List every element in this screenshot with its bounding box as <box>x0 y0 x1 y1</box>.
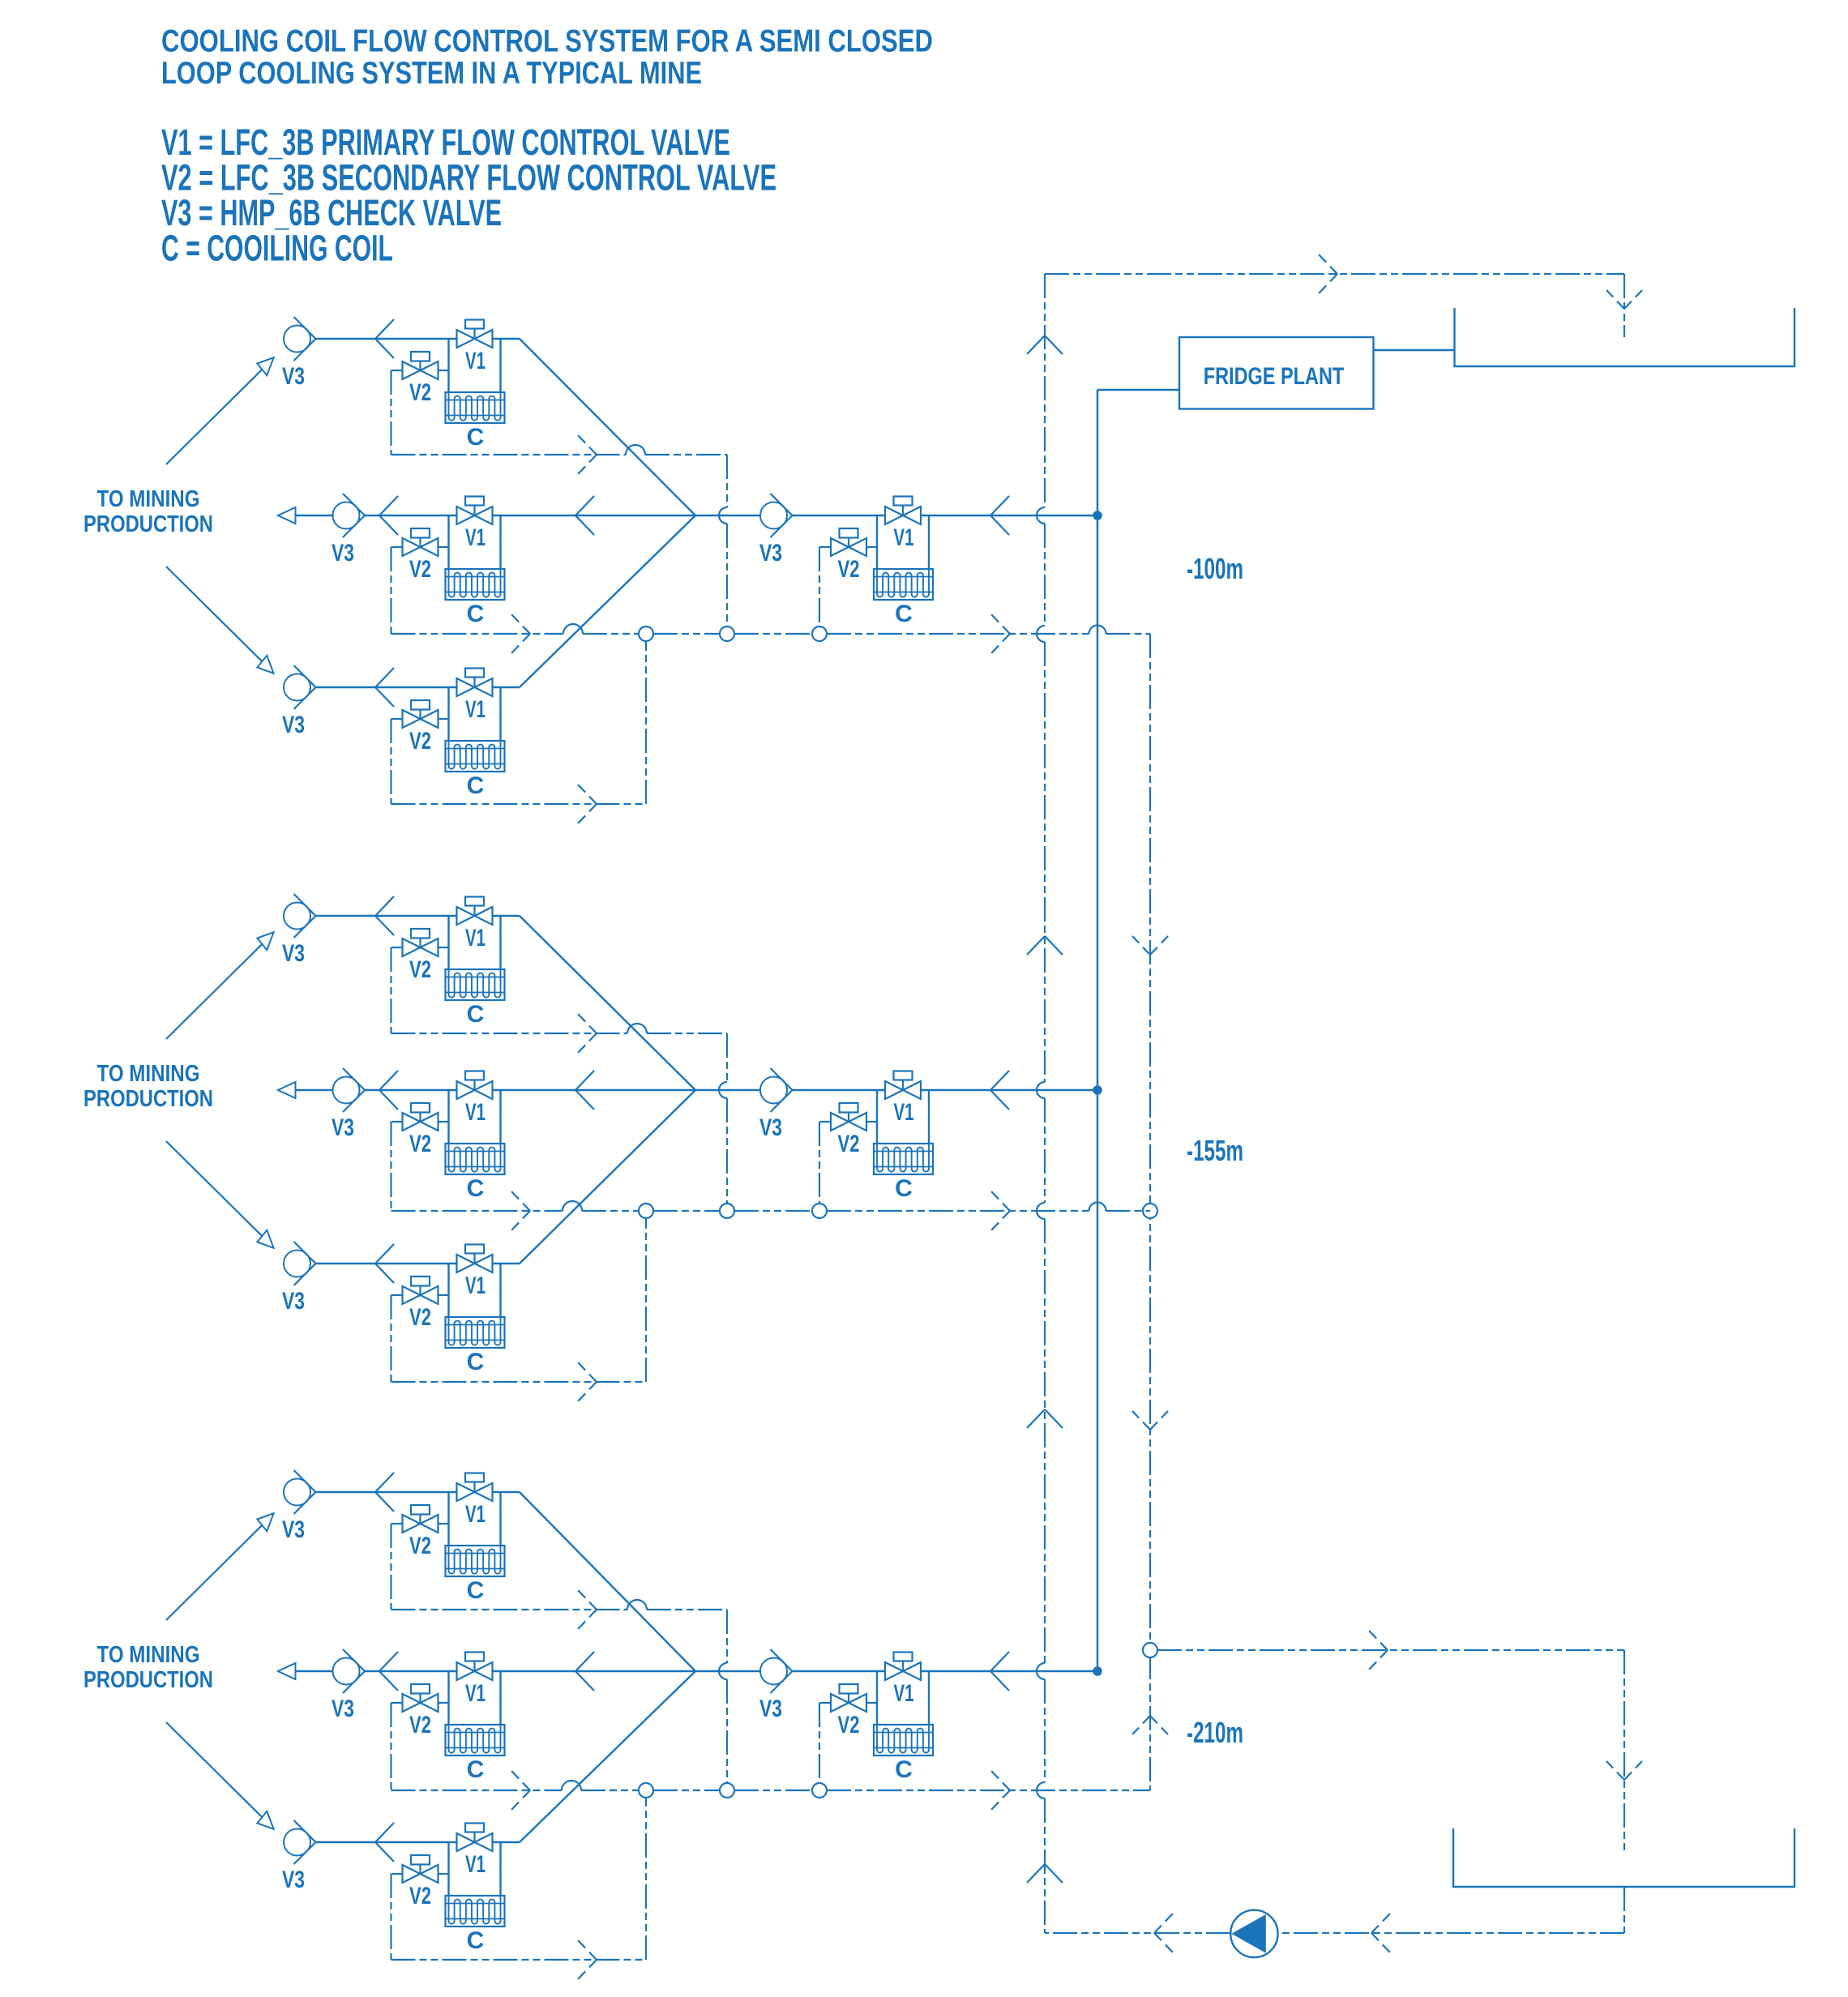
wire V2 bypass dropper (level -210m branch A) <box>390 1524 391 1610</box>
svg-text:-210m: -210m <box>1187 1716 1243 1749</box>
svg-text:V3: V3 <box>282 363 305 390</box>
wire pipe V3 to V1 (level -210m branch C) <box>316 1841 457 1843</box>
svg-text:V3: V3 <box>282 940 305 967</box>
wire V2 bypass dropper (level -155m branch A) <box>390 947 391 1033</box>
label V1 (level -155m branch B) <box>465 1099 486 1126</box>
check valve V3 (level -210m branch B) <box>333 1649 366 1693</box>
svg-text:V1: V1 <box>894 1099 914 1126</box>
flow arrow level return left (level -100m) <box>511 614 530 653</box>
valve V1 (level -155m branch A) <box>457 897 493 926</box>
label V2 (level -155m branch A) <box>409 956 431 983</box>
wire pipe V3 to V1 (second stage, level -100m) <box>793 515 886 516</box>
svg-text:C: C <box>895 601 913 627</box>
wire V2 bypass dropper (level -100m branch C) <box>390 719 391 804</box>
arrow to mining (lower, level -155m) <box>166 1141 274 1248</box>
wire return to settling tank T2 <box>1157 1649 1624 1651</box>
wire tank T1 to fridge plant <box>1374 349 1455 351</box>
label C (level -155m branch C) <box>467 1349 485 1375</box>
valve V1 (level -210m branch B) <box>457 1653 493 1681</box>
flow arrow (level -155m branch B) <box>379 1071 398 1110</box>
label V3 (second stage, level -100m) <box>759 540 782 567</box>
wire pipe V3 to V1 (level -210m branch A) <box>316 1491 457 1493</box>
svg-text:V2: V2 <box>838 1131 860 1157</box>
svg-text:C: C <box>467 1577 485 1604</box>
wire V2 bypass dropper (level -100m branch B) <box>390 547 391 634</box>
flow arrow (level -210m branch B) <box>379 1652 398 1691</box>
wire fridge plant to supply main elbow <box>1097 389 1179 391</box>
flow arrow up on return riser at y=1155 <box>1027 936 1063 955</box>
label V3 (level -100m branch C) <box>282 712 305 738</box>
wire pipe to supply main (level -100m) <box>921 515 1097 516</box>
cooling coil C (level -155m branch A) <box>446 969 505 1000</box>
svg-text:V3: V3 <box>759 540 782 567</box>
arrow to mining (lower, level -100m) <box>166 567 274 674</box>
svg-text:COOLING COIL FLOW CONTROL SYS: COOLING COIL FLOW CONTROL SYSTEM FOR A S… <box>161 24 933 59</box>
flow arrow (level -155m branch C) <box>375 1244 394 1283</box>
svg-text:C = COOILING COIL: C = COOILING COIL <box>161 228 393 269</box>
svg-text:V1: V1 <box>465 1851 486 1878</box>
svg-text:FRIDGE PLANT: FRIDGE PLANT <box>1204 363 1345 390</box>
wire V2 bypass dropper (level -100m branch A) <box>390 370 391 455</box>
check valve V3 (level -155m branch C) <box>284 1242 316 1285</box>
svg-text:V2: V2 <box>409 1304 431 1331</box>
wire manifold pipe (level -210m) <box>493 1670 761 1672</box>
crossover hop return A (level -100m) <box>626 445 645 455</box>
fridge plant FP1 <box>1179 337 1374 409</box>
arrow to mining (upper, level -100m) <box>166 357 274 464</box>
label V2 (level -100m second stage) <box>838 556 860 583</box>
wire pipe to supply main (level -155m) <box>921 1089 1097 1091</box>
wire tank line drop into T2 <box>1623 1650 1625 1853</box>
svg-text:C: C <box>895 1175 913 1202</box>
flow arrow level return left (level -155m) <box>511 1191 530 1230</box>
wire outlet stub (level -155m branch B) <box>296 1089 333 1091</box>
valve V1 (level -210m branch A) <box>457 1473 493 1502</box>
flow arrow down on return drop y=1764 <box>1132 1411 1168 1430</box>
flow arrow return A (level -155m) <box>578 1014 597 1053</box>
wire V2 bypass dropper (level -210m second stage) <box>819 1703 820 1790</box>
label V2 (level -155m branch C) <box>409 1304 431 1331</box>
check valve V3 (level -155m branch B) <box>333 1068 366 1112</box>
wire V2 bypass dropper (level -210m branch B) <box>390 1703 391 1790</box>
junction node return second stage (level -100m) <box>812 626 827 641</box>
crossover hop on return riser at y=636 <box>1037 507 1045 524</box>
wire coil risers (level -155m second stage) <box>877 1090 929 1144</box>
wire coil risers (level -155m branch B) <box>449 1090 501 1144</box>
flow arrow (level -210m branch A) <box>375 1473 394 1512</box>
junction node return A (level -210m) <box>720 1783 734 1798</box>
valve V2 (level -155m branch A) <box>391 929 449 956</box>
label C (level -210m branch C) <box>467 1927 485 1954</box>
crossover hop on return riser at y=2062 <box>1037 1663 1045 1679</box>
wire pipe to diagonal (level -100m branch C) <box>493 686 520 688</box>
label V1 (level -210m second stage) <box>894 1680 914 1707</box>
wire return A dropper (level -210m) <box>726 1610 728 1783</box>
svg-text:C: C <box>467 1349 485 1375</box>
flow arrow feed (level -155m) <box>990 1071 1009 1110</box>
wire coil risers (level -155m branch C) <box>449 1264 501 1317</box>
svg-text:V2: V2 <box>409 1712 431 1738</box>
svg-text:V1: V1 <box>465 1680 486 1707</box>
wire outlet stub (level -100m branch B) <box>296 515 333 516</box>
valve V2 (level -210m branch B) <box>391 1684 449 1712</box>
flow arrow left on bottom return x=1692 <box>1371 1914 1390 1952</box>
check valve V3 (level -100m branch C) <box>284 665 316 709</box>
label C (level -155m second stage) <box>895 1175 913 1202</box>
svg-text:TO MINING: TO MINING <box>97 1642 200 1668</box>
label C (level -100m second stage) <box>895 601 913 627</box>
wire pipe to supply main (level -210m) <box>921 1670 1097 1672</box>
wire level return (level -100m) <box>391 633 1151 635</box>
crossover hop return A (level -210m) <box>627 1600 647 1610</box>
label V2 (level -100m branch B) <box>409 556 431 583</box>
wire coil risers (level -155m branch A) <box>449 916 501 969</box>
flow arrow down into tank T2 <box>1606 1761 1642 1780</box>
crossover hop on return riser at y=2209 <box>1037 1782 1045 1798</box>
settling tank T2 <box>1453 1828 1795 1887</box>
svg-text:V1: V1 <box>465 696 486 723</box>
arrow to mining (upper, level -155m) <box>166 932 274 1039</box>
wire coil risers (level -100m branch B) <box>449 515 501 569</box>
label C (level -155m branch A) <box>467 1001 485 1028</box>
svg-text:V1: V1 <box>465 1099 486 1126</box>
label V3 (second stage, level -210m) <box>759 1696 782 1722</box>
valve V1 (level -155m branch C) <box>457 1245 493 1273</box>
check valve V3 (level -155m branch A) <box>284 894 316 938</box>
label C (level -210m branch A) <box>467 1577 485 1604</box>
label V3 (second stage, level -155m) <box>759 1114 782 1141</box>
cooling coil C (level -210m branch C) <box>446 1896 505 1926</box>
junction node return A (level -100m) <box>720 626 734 641</box>
junction node return C (level -210m) <box>639 1783 653 1798</box>
wire pipe V3 to V1 (second stage, level -210m) <box>793 1670 886 1672</box>
valve V2 (level -155m branch C) <box>391 1276 449 1304</box>
label V3 (level -100m branch A) <box>282 363 305 390</box>
wire return branch A (level -100m) <box>391 454 728 455</box>
cooling coil C (level -155m branch B) <box>446 1144 505 1174</box>
wire surface return drop into tank T1 <box>1623 274 1625 337</box>
junction node return second stage (level -210m) <box>812 1783 827 1798</box>
label V1 (level -210m branch C) <box>465 1851 486 1878</box>
wire surface return header <box>1045 273 1624 275</box>
svg-text:V3: V3 <box>332 1114 354 1141</box>
title <box>161 24 933 92</box>
check valve V3 (second stage, level -155m) <box>760 1068 793 1112</box>
flow arrow (level -210m branch C) <box>375 1823 394 1862</box>
label V1 (level -100m branch A) <box>465 348 486 374</box>
svg-text:PRODUCTION: PRODUCTION <box>83 1667 213 1693</box>
crossover hop level return over supply main (level -100m) <box>1089 626 1106 634</box>
label TO MINING PRODUCTION (level -210m) <box>83 1642 213 1693</box>
wire return branch A (level -155m) <box>391 1033 728 1034</box>
flow arrow on surface return <box>1319 254 1337 293</box>
label TO MINING PRODUCTION (level -155m) <box>83 1061 213 1112</box>
svg-text:V3: V3 <box>282 1516 305 1543</box>
valve V1 (level -210m second stage) <box>885 1653 921 1681</box>
arrow to mining (middle, level -155m) <box>278 1082 296 1098</box>
crossover hop level return over diagonal (level -210m) <box>562 1781 581 1790</box>
flow arrow up on return riser at y=1739 <box>1027 1409 1063 1428</box>
cooling coil C (level -100m branch A) <box>446 392 505 423</box>
arrow to mining (lower, level -210m) <box>166 1722 274 1829</box>
svg-text:V2: V2 <box>838 556 860 583</box>
crossover hop on return riser at y=782 <box>1037 626 1045 642</box>
svg-text:V2: V2 <box>409 1131 431 1157</box>
wire diagonal to manifold (level -155m branch C) <box>520 1090 695 1264</box>
flow arrow level return left (level -210m) <box>511 1771 530 1810</box>
label C (level -100m branch C) <box>467 772 485 799</box>
svg-text:C: C <box>467 1927 485 1954</box>
wire return drop main (collector) <box>1149 634 1151 1790</box>
label V2 (level -100m branch C) <box>409 728 431 755</box>
junction node supply main level -100m <box>1093 511 1102 520</box>
wire level return (level -155m) <box>391 1210 1151 1212</box>
flow arrow left on bottom return x=1424 <box>1154 1914 1173 1952</box>
arrow to mining (upper, level -210m) <box>166 1513 274 1620</box>
wire V2 bypass dropper (level -155m branch C) <box>390 1295 391 1382</box>
check valve V3 (level -210m branch A) <box>284 1470 316 1514</box>
wire coil risers (level -210m second stage) <box>877 1671 929 1725</box>
crossover hop level return over diagonal (level -100m) <box>563 624 583 634</box>
valve V2 (level -100m branch B) <box>391 528 449 556</box>
valve V2 (level -100m branch C) <box>391 700 449 728</box>
surface water tank T1 <box>1455 308 1795 366</box>
label C (level -100m branch B) <box>467 601 485 627</box>
svg-text:V2: V2 <box>409 1533 431 1559</box>
wire diagonal to manifold (level -210m branch C) <box>520 1671 695 1842</box>
valve V1 (level -100m branch C) <box>457 669 493 697</box>
legend <box>161 122 776 269</box>
label V3 (level -155m branch B) <box>332 1114 354 1141</box>
label TO MINING PRODUCTION (level -100m) <box>83 486 213 537</box>
svg-text:V1: V1 <box>894 524 914 551</box>
wire manifold pipe (level -155m) <box>493 1089 761 1091</box>
svg-text:V2: V2 <box>409 379 431 406</box>
junction node supply main level -155m <box>1093 1085 1102 1095</box>
check valve V3 (level -210m branch C) <box>284 1820 316 1864</box>
wire return C riser (level -155m) <box>645 1218 647 1382</box>
check valve V3 (second stage, level -100m) <box>760 494 793 537</box>
wire return branch C (level -100m) <box>391 803 647 805</box>
svg-text:-100m: -100m <box>1187 552 1243 585</box>
label -155m <box>1187 1134 1243 1167</box>
flow arrow manifold (level -210m) <box>575 1652 594 1691</box>
svg-text:C: C <box>467 772 485 799</box>
wire pipe V3 to V1 (level -100m branch C) <box>316 686 457 688</box>
wire pipe to diagonal (level -155m branch C) <box>493 1263 520 1264</box>
label V2 (level -210m second stage) <box>838 1712 860 1738</box>
flow arrow feed (level -210m) <box>990 1652 1009 1691</box>
svg-text:V2: V2 <box>838 1712 860 1738</box>
valve V1 (level -100m branch B) <box>457 497 493 525</box>
wire V2 bypass dropper (level -210m branch C) <box>390 1874 391 1960</box>
check valve V3 (level -100m branch B) <box>333 494 366 537</box>
svg-text:PRODUCTION: PRODUCTION <box>83 1086 213 1112</box>
junction node return C (level -100m) <box>639 626 653 641</box>
svg-text:LOOP COOLING SYSTEM IN A TYPIC: LOOP COOLING SYSTEM IN A TYPICAL MINE <box>161 56 702 91</box>
flow arrow (level -155m branch A) <box>375 896 394 935</box>
label V2 (level -155m second stage) <box>838 1131 860 1157</box>
cooling coil C (level -210m branch A) <box>446 1546 505 1576</box>
svg-text:C: C <box>467 601 485 627</box>
wire coil risers (level -100m second stage) <box>877 515 929 569</box>
svg-text:V1: V1 <box>894 1680 914 1707</box>
label -100m <box>1187 552 1243 585</box>
wire pipe to diagonal (level -155m branch A) <box>493 915 520 917</box>
wire diagonal to manifold (level -100m branch A) <box>520 339 695 515</box>
flow arrow return C (level -210m) <box>578 1940 597 1979</box>
label V2 (level -210m branch A) <box>409 1533 431 1559</box>
pump P1 <box>1230 1910 1277 1957</box>
wire return riser main (to surface) <box>1044 274 1046 1933</box>
flow arrow return A (level -210m) <box>578 1590 597 1629</box>
svg-text:V2: V2 <box>409 956 431 983</box>
wire pump suction <box>1278 1932 1624 1934</box>
flow arrow level return right (level -210m) <box>991 1771 1010 1810</box>
wire pipe V3 to V1 (level -210m branch B) <box>365 1670 457 1672</box>
label V2 (level -210m branch C) <box>409 1883 431 1909</box>
crossover hop level return over supply main (level -155m) <box>1089 1203 1106 1211</box>
cooling coil C (level -100m branch B) <box>446 569 505 600</box>
label V3 (level -210m branch C) <box>282 1867 305 1893</box>
wire pipe V3 to V1 (level -100m branch A) <box>316 338 457 340</box>
label C (level -100m branch A) <box>467 424 485 451</box>
cooling coil C (level -210m second stage) <box>874 1725 933 1755</box>
label V3 (level -210m branch B) <box>332 1696 354 1722</box>
valve V2 (level -155m branch B) <box>391 1103 449 1131</box>
valve V1 (level -100m second stage) <box>885 497 921 525</box>
wire tank T2 outlet <box>1623 1887 1625 1933</box>
svg-text:PRODUCTION: PRODUCTION <box>83 511 213 537</box>
label V1 (level -210m branch A) <box>465 1501 486 1528</box>
svg-text:V3: V3 <box>332 540 354 567</box>
wire pipe to diagonal (level -100m branch A) <box>493 338 520 340</box>
flow arrow up on return riser at y=2300 <box>1027 1864 1063 1883</box>
label C (level -155m branch B) <box>467 1175 485 1202</box>
cooling coil C (level -210m branch B) <box>446 1725 505 1755</box>
wire coil risers (level -100m branch A) <box>449 339 501 392</box>
svg-text:V3: V3 <box>282 1867 305 1893</box>
svg-text:V3: V3 <box>282 1288 305 1315</box>
crossover hop dropper (level -210m) <box>719 1663 727 1679</box>
svg-text:V1: V1 <box>465 348 486 374</box>
wire return branch A (level -210m) <box>391 1609 728 1610</box>
wire return A dropper (level -155m) <box>726 1033 728 1204</box>
cooling coil C (level -155m branch C) <box>446 1317 505 1348</box>
label V1 (level -155m second stage) <box>894 1099 914 1126</box>
wire coil risers (level -210m branch B) <box>449 1671 501 1725</box>
wire diagonal to manifold (level -155m branch A) <box>520 916 695 1090</box>
wire pump discharge <box>1045 1932 1230 1934</box>
wire diagonal to manifold (level -100m branch C) <box>520 515 695 687</box>
flow arrow (level -100m branch C) <box>375 668 394 707</box>
label C (level -210m second stage) <box>895 1756 913 1783</box>
label V2 (level -100m branch A) <box>409 379 431 406</box>
wire return A dropper (level -100m) <box>726 455 728 626</box>
junction node return C (level -155m) <box>639 1204 653 1218</box>
svg-text:C: C <box>895 1756 913 1783</box>
svg-text:TO MINING: TO MINING <box>97 486 200 512</box>
svg-text:V1: V1 <box>465 1501 486 1528</box>
valve V2 (level -210m branch A) <box>391 1505 449 1533</box>
wire pipe V3 to V1 (level -155m branch C) <box>316 1263 457 1264</box>
label V1 (level -210m branch B) <box>465 1680 486 1707</box>
flow arrow manifold (level -100m) <box>575 496 594 535</box>
svg-text:C: C <box>467 1175 485 1202</box>
flow arrow (level -100m branch B) <box>379 496 398 535</box>
wire coil risers (level -210m branch C) <box>449 1842 501 1896</box>
valve V1 (level -155m branch B) <box>457 1071 493 1100</box>
crossover hop on return riser at y=1345 <box>1037 1082 1045 1098</box>
crossover hop return A (level -155m) <box>627 1024 647 1033</box>
flow arrow feed (level -100m) <box>990 496 1009 535</box>
wire coil risers (level -100m branch C) <box>449 687 501 741</box>
wire V2 bypass dropper (level -155m second stage) <box>819 1122 820 1211</box>
label V3 (level -100m branch B) <box>332 540 354 567</box>
valve V2 (level -155m second stage) <box>819 1103 877 1131</box>
flow arrow up on return drop y=2117 <box>1132 1716 1168 1734</box>
label V1 (level -100m branch C) <box>465 696 486 723</box>
svg-text:-155m: -155m <box>1187 1134 1243 1167</box>
flow arrow down on return drop y=1178 <box>1132 936 1168 955</box>
svg-text:V3: V3 <box>759 1696 782 1722</box>
valve V1 (level -210m branch C) <box>457 1824 493 1852</box>
wire pipe V3 to V1 (level -155m branch A) <box>316 915 457 917</box>
label V2 (level -210m branch B) <box>409 1712 431 1738</box>
arrow to mining (middle, level -210m) <box>278 1663 296 1679</box>
flow arrow down into tank T1 <box>1606 290 1642 309</box>
junction node return A (level -155m) <box>720 1204 734 1218</box>
flow arrow return A (level -100m) <box>578 435 597 474</box>
label V1 (level -100m branch B) <box>465 524 486 551</box>
check valve V3 (level -100m branch A) <box>284 317 316 361</box>
valve V2 (level -210m second stage) <box>819 1684 877 1712</box>
cooling coil C (level -100m branch C) <box>446 741 505 772</box>
wire coil risers (level -210m branch A) <box>449 1492 501 1546</box>
valve V1 (level -155m second stage) <box>885 1071 921 1100</box>
wire level return (level -210m) <box>391 1790 1151 1791</box>
svg-text:V1: V1 <box>465 1272 486 1299</box>
wire return branch C (level -155m) <box>391 1381 647 1383</box>
crossover hop dropper (level -155m) <box>719 1082 727 1098</box>
svg-text:V1: V1 <box>465 925 486 951</box>
svg-text:V1: V1 <box>465 524 486 551</box>
valve V1 (level -100m branch A) <box>457 320 493 349</box>
junction node supply main level -210m <box>1093 1666 1102 1676</box>
junction node return drop at level -155m <box>1143 1204 1157 1218</box>
wire V2 bypass dropper (level -155m branch B) <box>390 1122 391 1211</box>
label C (level -210m branch B) <box>467 1756 485 1783</box>
flow arrow level return right (level -100m) <box>991 614 1010 653</box>
label V3 (level -155m branch A) <box>282 940 305 967</box>
label V2 (level -155m branch B) <box>409 1131 431 1157</box>
valve V2 (level -210m branch C) <box>391 1855 449 1883</box>
wire pipe V3 to V1 (second stage, level -155m) <box>793 1089 886 1091</box>
flow arrow level return right (level -155m) <box>991 1191 1010 1230</box>
svg-text:V3: V3 <box>282 712 305 738</box>
svg-text:C: C <box>467 1756 485 1783</box>
wire pipe V3 to V1 (level -155m branch B) <box>365 1089 457 1091</box>
svg-text:V2: V2 <box>409 728 431 755</box>
wire pipe to diagonal (level -210m branch C) <box>493 1841 520 1843</box>
wire V2 bypass dropper (level -100m second stage) <box>819 547 820 634</box>
wire pipe to diagonal (level -210m branch A) <box>493 1491 520 1493</box>
wire return branch C (level -210m) <box>391 1959 647 1961</box>
flow arrow manifold (level -155m) <box>575 1071 594 1110</box>
label V3 (level -210m branch A) <box>282 1516 305 1543</box>
svg-text:V3: V3 <box>332 1696 354 1722</box>
crossover hop on return riser at y=1494 <box>1037 1203 1045 1219</box>
